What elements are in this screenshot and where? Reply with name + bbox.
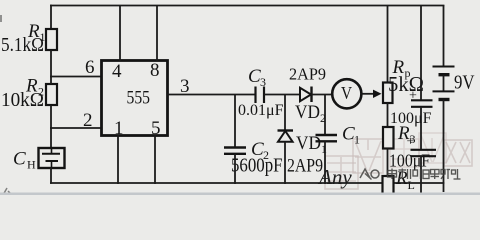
wire R3 to RL xyxy=(387,149,389,177)
svg-text:3: 3 xyxy=(260,75,266,89)
wire battery to bottom xyxy=(443,100,445,193)
svg-text:9V: 9V xyxy=(454,72,475,94)
node C1 branch xyxy=(324,95,326,136)
top rail xyxy=(50,5,444,7)
svg-text:H: H xyxy=(27,158,36,172)
capacitor CH xyxy=(39,148,65,168)
left rail upper xyxy=(50,5,52,30)
svg-text:C: C xyxy=(13,149,26,170)
watermark dark glyphs xyxy=(388,169,461,180)
wire pin1 xyxy=(117,135,119,184)
resistor R1 xyxy=(46,29,57,50)
wire cap1 to cap2 xyxy=(420,107,422,150)
svg-text:+: + xyxy=(407,135,415,150)
wire Rp to R3 xyxy=(387,103,389,127)
wire C2 to bottom xyxy=(234,154,236,184)
wire CH to bottom rail xyxy=(50,168,52,184)
svg-text:6: 6 xyxy=(85,57,95,78)
wire node2 to CH xyxy=(50,128,52,149)
capacitor 100uF no2 xyxy=(407,135,437,157)
wire R2 to node2 xyxy=(50,105,52,129)
watermark outline glyph 1 xyxy=(325,156,358,189)
capacitor C1 xyxy=(316,135,338,141)
wire R1 to node6 xyxy=(50,50,52,77)
watermark outline glyph 2 xyxy=(353,139,383,173)
svg-text:5.1kΩ: 5.1kΩ xyxy=(1,34,44,56)
resistor R3 xyxy=(383,127,394,149)
bottom gray band xyxy=(0,193,480,196)
svg-text:+: + xyxy=(409,89,417,104)
capacitor C2 xyxy=(224,148,246,154)
battery rail top xyxy=(443,5,445,67)
potentiometer Rp xyxy=(383,83,393,104)
rail B top xyxy=(420,5,422,100)
svg-text:L: L xyxy=(408,178,415,192)
wire pin4 xyxy=(119,5,121,61)
diode VD2 xyxy=(300,87,312,103)
watermark dark icon xyxy=(360,169,379,180)
wire VD2 to meter xyxy=(312,94,332,96)
diode VD1 xyxy=(278,131,294,142)
svg-text:5kΩ: 5kΩ xyxy=(388,72,424,96)
svg-text:2AP9: 2AP9 xyxy=(289,65,326,84)
svg-text:1: 1 xyxy=(354,133,360,147)
wire C1 to bottom xyxy=(324,141,326,184)
watermark outline glyph 4 xyxy=(419,133,446,163)
wire pin2 xyxy=(50,127,102,129)
svg-text:8: 8 xyxy=(150,60,160,81)
wire pin6 xyxy=(50,76,102,78)
svg-text:555: 555 xyxy=(127,88,151,109)
wire pin3 xyxy=(167,94,256,96)
node C2 branch xyxy=(234,95,236,148)
meter V xyxy=(332,79,361,108)
svg-text:0.01μF: 0.01μF xyxy=(238,102,284,119)
wiper arrow into Rp xyxy=(373,90,382,98)
resistor RL xyxy=(383,176,394,197)
svg-text:5600pF: 5600pF xyxy=(231,155,283,177)
IC 555 xyxy=(102,61,168,136)
wire pin8 xyxy=(156,5,158,61)
watermark outline glyph 3 xyxy=(390,139,419,167)
bottom rail xyxy=(50,182,444,184)
battery 9V xyxy=(433,67,455,100)
wire VD1 to bottom xyxy=(284,142,286,184)
wire node6 to R2 xyxy=(50,77,52,85)
svg-text:1: 1 xyxy=(321,142,327,156)
node VD1 branch xyxy=(284,95,286,131)
svg-text:4: 4 xyxy=(112,61,122,82)
svg-text:100μF: 100μF xyxy=(390,110,432,127)
svg-text:VD: VD xyxy=(295,102,320,123)
watermark outline glyph 5 xyxy=(444,140,472,166)
capacitor 100uF no1 xyxy=(409,89,433,107)
wire pin5 xyxy=(154,135,156,184)
edge smudge xyxy=(0,15,2,22)
capacitor C3 xyxy=(256,87,265,104)
wire C3 to VD2 xyxy=(264,94,301,96)
rail A top xyxy=(387,5,389,83)
corner marks bottom-left xyxy=(3,188,12,195)
svg-text:100μF: 100μF xyxy=(389,151,430,171)
svg-text:2AP9: 2AP9 xyxy=(287,156,323,177)
wire meter to arrow xyxy=(361,93,375,95)
resistor R2 xyxy=(46,84,57,105)
svg-text:10kΩ: 10kΩ xyxy=(1,89,44,111)
wire cap2 to bottom xyxy=(420,156,422,193)
svg-text:2: 2 xyxy=(83,110,93,131)
svg-text:V: V xyxy=(341,83,352,103)
